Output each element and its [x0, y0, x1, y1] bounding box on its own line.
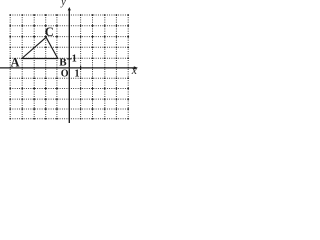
tick x=1 [80, 66, 82, 70]
svg-text:C: C [45, 25, 54, 39]
grid dotted horizontal lines [10, 15, 128, 119]
y-axis [68, 7, 71, 123]
x-axis [0, 66, 138, 69]
svg-text:B: B [59, 57, 67, 69]
svg-text:A: A [11, 55, 20, 69]
grid dotted vertical lines [10, 15, 128, 119]
svg-text:y: y [60, 0, 66, 8]
grid intersection dots [9, 14, 129, 120]
tick y=1 [67, 58, 71, 60]
svg-text:x: x [131, 65, 138, 77]
svg-text:1: 1 [72, 54, 77, 65]
triangle ABC [22, 37, 58, 58]
svg-text:O: O [61, 68, 69, 79]
svg-text:1: 1 [75, 69, 80, 80]
